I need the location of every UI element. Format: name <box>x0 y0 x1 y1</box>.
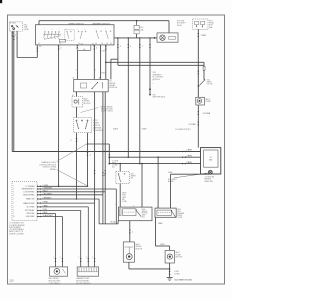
svg-text:GOVERNOR: GOVERNOR <box>93 130 104 132</box>
connector pin c lower <box>104 170 106 174</box>
SP box contacts <box>12 26 13 27</box>
svg-text:8 CONN: 8 CONN <box>189 124 196 126</box>
svg-text:K1: K1 <box>72 95 74 97</box>
B1 left element <box>119 209 121 216</box>
motor inner lines <box>125 246 134 248</box>
wiper switch wiper arm <box>44 36 61 40</box>
svg-text:7: 7 <box>142 46 143 48</box>
svg-text:1: 1 <box>53 257 54 259</box>
wire left branch A <box>11 31 13 151</box>
row connector LOW SPEED <box>37 191 41 193</box>
row vertical drop B+ <box>87 207 89 267</box>
svg-text:M6/4: M6/4 <box>177 209 181 211</box>
svg-text:WASH PUMP: WASH PUMP <box>23 202 35 205</box>
wire row IGN FEED <box>37 216 62 218</box>
staircase vertical to 31b bus 3 <box>102 195 104 224</box>
D3 feed wire <box>119 164 121 172</box>
switch contacts left group <box>44 30 47 33</box>
connector on pump wire upper <box>197 33 199 37</box>
main ground wire long horizontal <box>12 151 200 153</box>
wire to relay pin 1 <box>77 51 79 80</box>
governor out left wire <box>76 133 78 199</box>
svg-text:4 GRN/WHT: 4 GRN/WHT <box>43 188 54 190</box>
svg-text:30: 30 <box>72 78 74 80</box>
B2 switch arm <box>171 211 175 218</box>
wire row WASH PUMP <box>37 202 95 204</box>
connector on wire B <box>13 36 15 40</box>
wire row LT GREEN <box>37 185 88 187</box>
wiper motor relay box B1 <box>118 207 152 221</box>
connector 53a <box>58 46 60 50</box>
supply drop into switch box <box>38 21 40 25</box>
svg-text:53e: 53e <box>81 43 84 45</box>
svg-text:MOTOR: MOTOR <box>176 257 183 259</box>
svg-text:10: 10 <box>13 216 15 218</box>
heater lower vertical <box>203 70 205 80</box>
governor contacts <box>76 120 77 121</box>
connector pump lower 2 <box>197 122 199 126</box>
connector relay pin 2 <box>93 46 95 50</box>
svg-text:3: 3 <box>120 46 121 48</box>
svg-text:(BEHIND: (BEHIND <box>205 179 212 181</box>
svg-text:B+ FEED: B+ FEED <box>27 207 35 209</box>
row connector PARK SW <box>37 198 41 200</box>
svg-text:1 GRN: 1 GRN <box>101 51 107 53</box>
B2 output wire <box>155 217 157 246</box>
svg-text:PUMP: PUMP <box>177 215 181 217</box>
stub wire to splice S33 <box>149 38 151 94</box>
svg-text:DETAIL: DETAIL <box>50 168 56 171</box>
connector relay pin 4 <box>105 46 107 50</box>
connector on long wire left <box>127 44 129 48</box>
supply wire top horizontal <box>39 20 169 22</box>
connector bottom wire x94.6 <box>94 258 96 262</box>
svg-text:SIDE): SIDE) <box>177 25 182 27</box>
svg-text:5 BLK: 5 BLK <box>113 128 119 130</box>
svg-text:(BLK): (BLK) <box>112 163 117 165</box>
svg-text:PUMP: PUMP <box>206 101 212 103</box>
svg-text:G1 GROUND: G1 GROUND <box>205 177 216 179</box>
motor ground wire across <box>129 268 170 270</box>
svg-text:2: 2 <box>132 232 133 234</box>
relay coil <box>81 83 87 88</box>
row connector LT GREEN <box>37 185 41 187</box>
junction dots on lamp wire <box>117 37 118 38</box>
connector block C7 dashed box <box>12 181 37 220</box>
svg-text:5 BLK: 5 BLK <box>142 128 148 130</box>
B2 jog down <box>169 246 171 250</box>
row connector WASH PUMP <box>37 202 41 204</box>
connector on stub <box>149 44 151 48</box>
long wire to governor relay left <box>127 38 129 157</box>
dashed inner detent box <box>65 29 74 40</box>
svg-text:WIPER: WIPER <box>142 211 148 213</box>
splice S33 upper dot <box>149 88 151 90</box>
left group bus segment <box>43 33 61 35</box>
svg-text:31b: 31b <box>83 49 86 51</box>
svg-text:1 BRN: 1 BRN <box>187 150 193 152</box>
staircase vertical to 31b bus 2 <box>104 192 106 224</box>
wire to lamp horizontal <box>114 37 157 39</box>
svg-text:14 CONN: 14 CONN <box>203 113 211 115</box>
svg-text:PARK SW: PARK SW <box>26 198 35 201</box>
feed wire 2 to G1 <box>109 156 200 158</box>
svg-text:(LT): (LT) <box>112 167 115 169</box>
svg-text:6 BLK/: 6 BLK/ <box>122 193 127 195</box>
ground junction <box>169 268 171 270</box>
G1 bottom feed down <box>170 174 172 208</box>
inner detent label box <box>59 39 65 42</box>
park switch motor <box>54 269 60 275</box>
svg-text:5: 5 <box>76 70 77 72</box>
relay inner pin <box>102 82 104 89</box>
31b bus horizontal <box>99 223 118 225</box>
washer pump motor <box>197 99 202 104</box>
indicator lamp box <box>157 33 178 42</box>
svg-text:IGN FEED: IGN FEED <box>26 216 35 218</box>
connector washer wire <box>117 44 119 48</box>
row connector HIGH SPEED <box>37 194 41 196</box>
park switch contact <box>63 269 66 274</box>
svg-text:1 BLK: 1 BLK <box>158 223 164 225</box>
svg-text:WIPER SWITCH: WIPER SWITCH <box>69 23 85 25</box>
wire row INT RELAY <box>37 210 81 212</box>
svg-text:G1: G1 <box>210 157 212 159</box>
svg-text:3: 3 <box>92 257 93 259</box>
svg-text:2: 2 <box>86 257 87 259</box>
svg-text:53: 53 <box>95 43 97 45</box>
washer wire down-left jog <box>117 38 119 65</box>
svg-text:5 CONN: 5 CONN <box>112 161 119 163</box>
svg-text:5: 5 <box>130 46 131 48</box>
lamp resistor <box>169 37 176 40</box>
svg-text:CONN: CONN <box>174 274 180 276</box>
feed wire to B2 pin 2 <box>157 157 159 208</box>
svg-text:WIPER: WIPER <box>131 176 137 178</box>
washer level switch arm <box>199 80 204 86</box>
fuse wire <box>136 21 138 26</box>
svg-text:M6/1: M6/1 <box>142 209 146 211</box>
connector on ground wire <box>169 271 171 275</box>
governor dashed box <box>74 118 92 133</box>
svg-text:LT GREEN: LT GREEN <box>25 186 35 188</box>
splice box SP dashed <box>9 22 22 31</box>
svg-text:CONN: CONN <box>122 201 127 203</box>
row connector B+ FEED <box>37 206 41 208</box>
wire row PARK SW <box>37 198 99 200</box>
svg-text:1: 1 <box>78 257 79 259</box>
fuse F30 label box <box>134 30 139 34</box>
extra stair vertical from row2 <box>98 198 100 200</box>
svg-text:MODULE: MODULE <box>153 79 161 81</box>
svg-text:2 RED: 2 RED <box>201 35 207 37</box>
fuse panel dashed box <box>193 19 208 29</box>
junction feed3 <box>108 163 110 165</box>
rear motor <box>167 254 172 259</box>
svg-text:1: 1 <box>95 70 96 72</box>
svg-text:STEER COLUMN: STEER COLUMN <box>9 233 24 235</box>
wire to relay pin 4 <box>105 45 107 80</box>
D3 junction on feed <box>119 163 121 165</box>
indicator lamp <box>160 35 165 40</box>
svg-text:INT RELAY: INT RELAY <box>25 209 35 212</box>
connector marks on feeds <box>182 151 186 153</box>
svg-text:GRN: GRN <box>122 195 125 197</box>
connector pin b lower <box>102 172 104 176</box>
connector on wire A <box>11 33 13 37</box>
svg-text:6 PNK: 6 PNK <box>43 202 49 204</box>
limit switch dashed box D3 <box>116 171 129 183</box>
svg-text:2: 2 <box>60 257 61 259</box>
connector bottom wire x55.5 <box>55 258 57 262</box>
feed wire to B1 pin 3 <box>141 164 143 208</box>
front wiper motor box <box>123 242 134 262</box>
wiper relay box <box>74 79 109 91</box>
junction row ends <box>87 186 88 187</box>
D3 contacts <box>118 173 119 174</box>
wire drop to lamp box <box>168 21 170 33</box>
svg-text:LIMIT: LIMIT <box>122 197 126 199</box>
svg-text:9 BLK: 9 BLK <box>43 212 49 214</box>
31b bus riser to B1 pin 85 <box>117 221 119 224</box>
svg-text:MOTOR: MOTOR <box>136 248 143 250</box>
svg-text:53: 53 <box>38 43 40 45</box>
B1 strip bar <box>123 209 137 216</box>
G1 inner box <box>204 150 218 167</box>
splice S33 <box>149 94 151 96</box>
connector governor right lower <box>87 152 89 156</box>
svg-text:8 YEL: 8 YEL <box>43 209 48 211</box>
svg-text:3 BLU: 3 BLU <box>43 190 49 192</box>
connector pin a lower <box>94 170 96 174</box>
svg-text:86: 86 <box>99 78 101 80</box>
svg-text:S33: S33 <box>153 94 156 96</box>
svg-text:7 RED: 7 RED <box>43 206 49 208</box>
wire row HIGH SPEED <box>37 194 103 196</box>
svg-text:(K1): (K1) <box>142 217 145 219</box>
connector bottom wire x80.7 <box>80 258 82 262</box>
motor ground wire down <box>128 262 130 269</box>
staircase vertical to 31b bus 1 <box>115 189 117 224</box>
switch feed wire down <box>36 45 38 58</box>
relay module leader line <box>81 108 99 113</box>
svg-text:MOTOR: MOTOR <box>84 103 91 105</box>
svg-text:(REF PWR DIST): (REF PWR DIST) <box>153 97 166 99</box>
connector on branch <box>108 154 110 158</box>
svg-text:LOW SPEED: LOW SPEED <box>24 192 36 194</box>
svg-text:85 31b: 85 31b <box>111 222 116 224</box>
svg-text:2 BLU/WHT: 2 BLU/WHT <box>43 193 53 195</box>
svg-text:GROUND: GROUND <box>26 213 35 215</box>
connector bottom wire x88.3 <box>87 258 89 262</box>
svg-text:S28: S28 <box>131 174 134 176</box>
washer pump box <box>196 97 205 105</box>
D3 output wire <box>119 184 121 208</box>
svg-text:53: 53 <box>101 43 103 45</box>
wire from terminal 53a <box>58 45 60 186</box>
wire branch C down from SP box <box>16 31 18 57</box>
wire row LOW SPEED <box>37 191 105 193</box>
jumper U loop <box>77 45 91 51</box>
svg-text:WASHER SWITCH: WASHER SWITCH <box>92 22 110 25</box>
svg-text:COWL PANEL): COWL PANEL) <box>49 282 61 285</box>
B2 strip bar <box>157 210 172 215</box>
ground wire final <box>169 269 171 278</box>
feed wire 3 to G1 <box>109 163 200 165</box>
border frame <box>8 15 225 284</box>
svg-text:LVL SW: LVL SW <box>207 83 213 85</box>
rear relay box B2 <box>155 208 176 217</box>
row vertical drop ign <box>61 217 63 267</box>
svg-text:GREEN/WHITE: GREEN/WHITE <box>21 189 35 191</box>
row connector GROUND <box>37 213 41 215</box>
logic callout leader upper <box>57 144 87 162</box>
connector B1 output <box>129 230 131 234</box>
fuse F30 body <box>134 25 139 29</box>
wire to relay pin 2 <box>93 45 95 80</box>
svg-text:5 GRN: 5 GRN <box>43 185 49 187</box>
junction governor right <box>87 143 89 145</box>
connector governor left <box>76 138 78 142</box>
svg-text:53: 53 <box>110 43 112 45</box>
row vertical drop int relay <box>80 211 82 267</box>
heater drop vertical <box>203 62 205 66</box>
junction feed2 <box>108 156 110 158</box>
wire jog C to switch feed <box>17 57 37 59</box>
conn marks on long ground wire <box>104 151 108 153</box>
long branch wire to washer heater upper <box>106 61 204 63</box>
relay1 coil circle <box>74 100 77 103</box>
svg-text:MOTOR: MOTOR <box>142 213 149 215</box>
middle contacts <box>77 30 80 33</box>
wire relay1 to governor <box>76 107 78 118</box>
svg-text:HIGH SPEED: HIGH SPEED <box>23 195 35 197</box>
connector relay pin 1 <box>77 45 79 49</box>
reservoir hatch <box>78 268 80 272</box>
branch jog top <box>88 143 110 145</box>
ground symbol <box>167 277 173 279</box>
relay out wire pin c <box>104 92 106 192</box>
junction long wires at feeds <box>128 156 130 158</box>
detent contacts <box>66 30 69 33</box>
connector marks pump wire mid <box>197 71 199 75</box>
svg-text:9: 9 <box>70 140 71 142</box>
relay out wire pin a <box>94 92 96 203</box>
svg-text:53: 53 <box>59 43 61 45</box>
svg-text:6: 6 <box>96 48 97 50</box>
svg-text:30: 30 <box>39 46 41 48</box>
svg-text:(LEFT COWL): (LEFT COWL) <box>101 111 113 113</box>
page corner scan mark <box>0 0 2 3</box>
G1 ground symbol <box>208 170 212 174</box>
wire left branch B <box>13 31 15 151</box>
fuse elements <box>195 21 199 24</box>
svg-text:FUSE: FUSE <box>24 29 30 31</box>
governor out right wire <box>87 133 89 187</box>
long wire to governor relay right <box>139 38 141 164</box>
rear motor box <box>165 250 174 263</box>
washer jog horizontal <box>111 58 118 60</box>
svg-text:3 BRN: 3 BRN <box>187 162 193 164</box>
row vertical drop ground <box>55 214 57 267</box>
svg-text:53: 53 <box>106 43 108 45</box>
relay contact arm <box>92 83 98 89</box>
B1 output wire <box>129 221 131 242</box>
row connector GREEN/WHITE <box>37 188 41 190</box>
svg-text:5: 5 <box>153 80 154 82</box>
intermittent relay dashed box <box>72 97 83 108</box>
washer switch contacts <box>95 30 98 33</box>
svg-text:S42: S42 <box>207 79 210 81</box>
svg-text:10 BLK/WHT: 10 BLK/WHT <box>43 215 54 217</box>
svg-text:3: 3 <box>90 154 91 156</box>
junction at fuse tap <box>136 20 138 22</box>
svg-text:1 BRN/BLK: 1 BRN/BLK <box>43 198 53 200</box>
long branch wire lower <box>118 64 204 66</box>
wiper park switch box <box>50 267 68 276</box>
connector bottom wire x62.4 <box>62 258 64 262</box>
branch jog down <box>108 144 110 164</box>
connector on switch feed <box>36 48 38 52</box>
svg-text:CONN: CONN <box>177 217 182 219</box>
svg-text:1: 1 <box>15 34 16 36</box>
svg-text:4: 4 <box>60 48 61 50</box>
staircase vertical to 31b bus 4 <box>98 199 100 224</box>
row vertical drop wash pump <box>94 203 96 267</box>
B1 switch arm <box>136 210 141 217</box>
connector pump lower 1 <box>197 111 199 115</box>
logic callout leader lower <box>57 170 87 186</box>
front wiper motor <box>126 254 132 260</box>
ground distribution box G1 <box>201 148 221 174</box>
G1 bottom feed wire <box>171 173 210 175</box>
wire row B+ FEED <box>37 206 88 208</box>
svg-text:W/O THEFT: W/O THEFT <box>168 179 177 181</box>
B2 output jog <box>156 245 170 247</box>
relay out wire pin b <box>102 92 104 195</box>
wire row GREEN/WHITE <box>37 188 116 190</box>
washer jog down <box>110 59 112 79</box>
svg-text:G100 REAR GROUND: G100 REAR GROUND <box>174 278 193 281</box>
washer pump supply wire <box>197 29 199 97</box>
combination switch box <box>36 25 115 45</box>
svg-text:MODULE: MODULE <box>109 87 117 89</box>
row connector IGN FEED <box>37 216 41 218</box>
svg-text:SP 2000: SP 2000 <box>10 22 16 24</box>
svg-text:2 BRN: 2 BRN <box>187 155 193 157</box>
svg-text:14 CONNECTOR (RT): 14 CONNECTOR (RT) <box>175 129 191 131</box>
svg-text:FRONT FENDER): FRONT FENDER) <box>76 283 91 285</box>
wire row GROUND <box>37 213 56 215</box>
pump lower wire <box>197 105 199 148</box>
washer reservoir connector box <box>77 267 98 276</box>
heated jets resistor <box>203 66 205 70</box>
row connector INT RELAY <box>37 210 41 212</box>
relay out wire to motor relay <box>76 92 78 97</box>
wire to relay pin 3 <box>100 45 102 80</box>
theft note leader arrow <box>174 173 208 178</box>
connector on long wire right <box>139 44 141 48</box>
rear motor ground down <box>169 263 171 269</box>
svg-text:120: 120 <box>9 280 14 283</box>
